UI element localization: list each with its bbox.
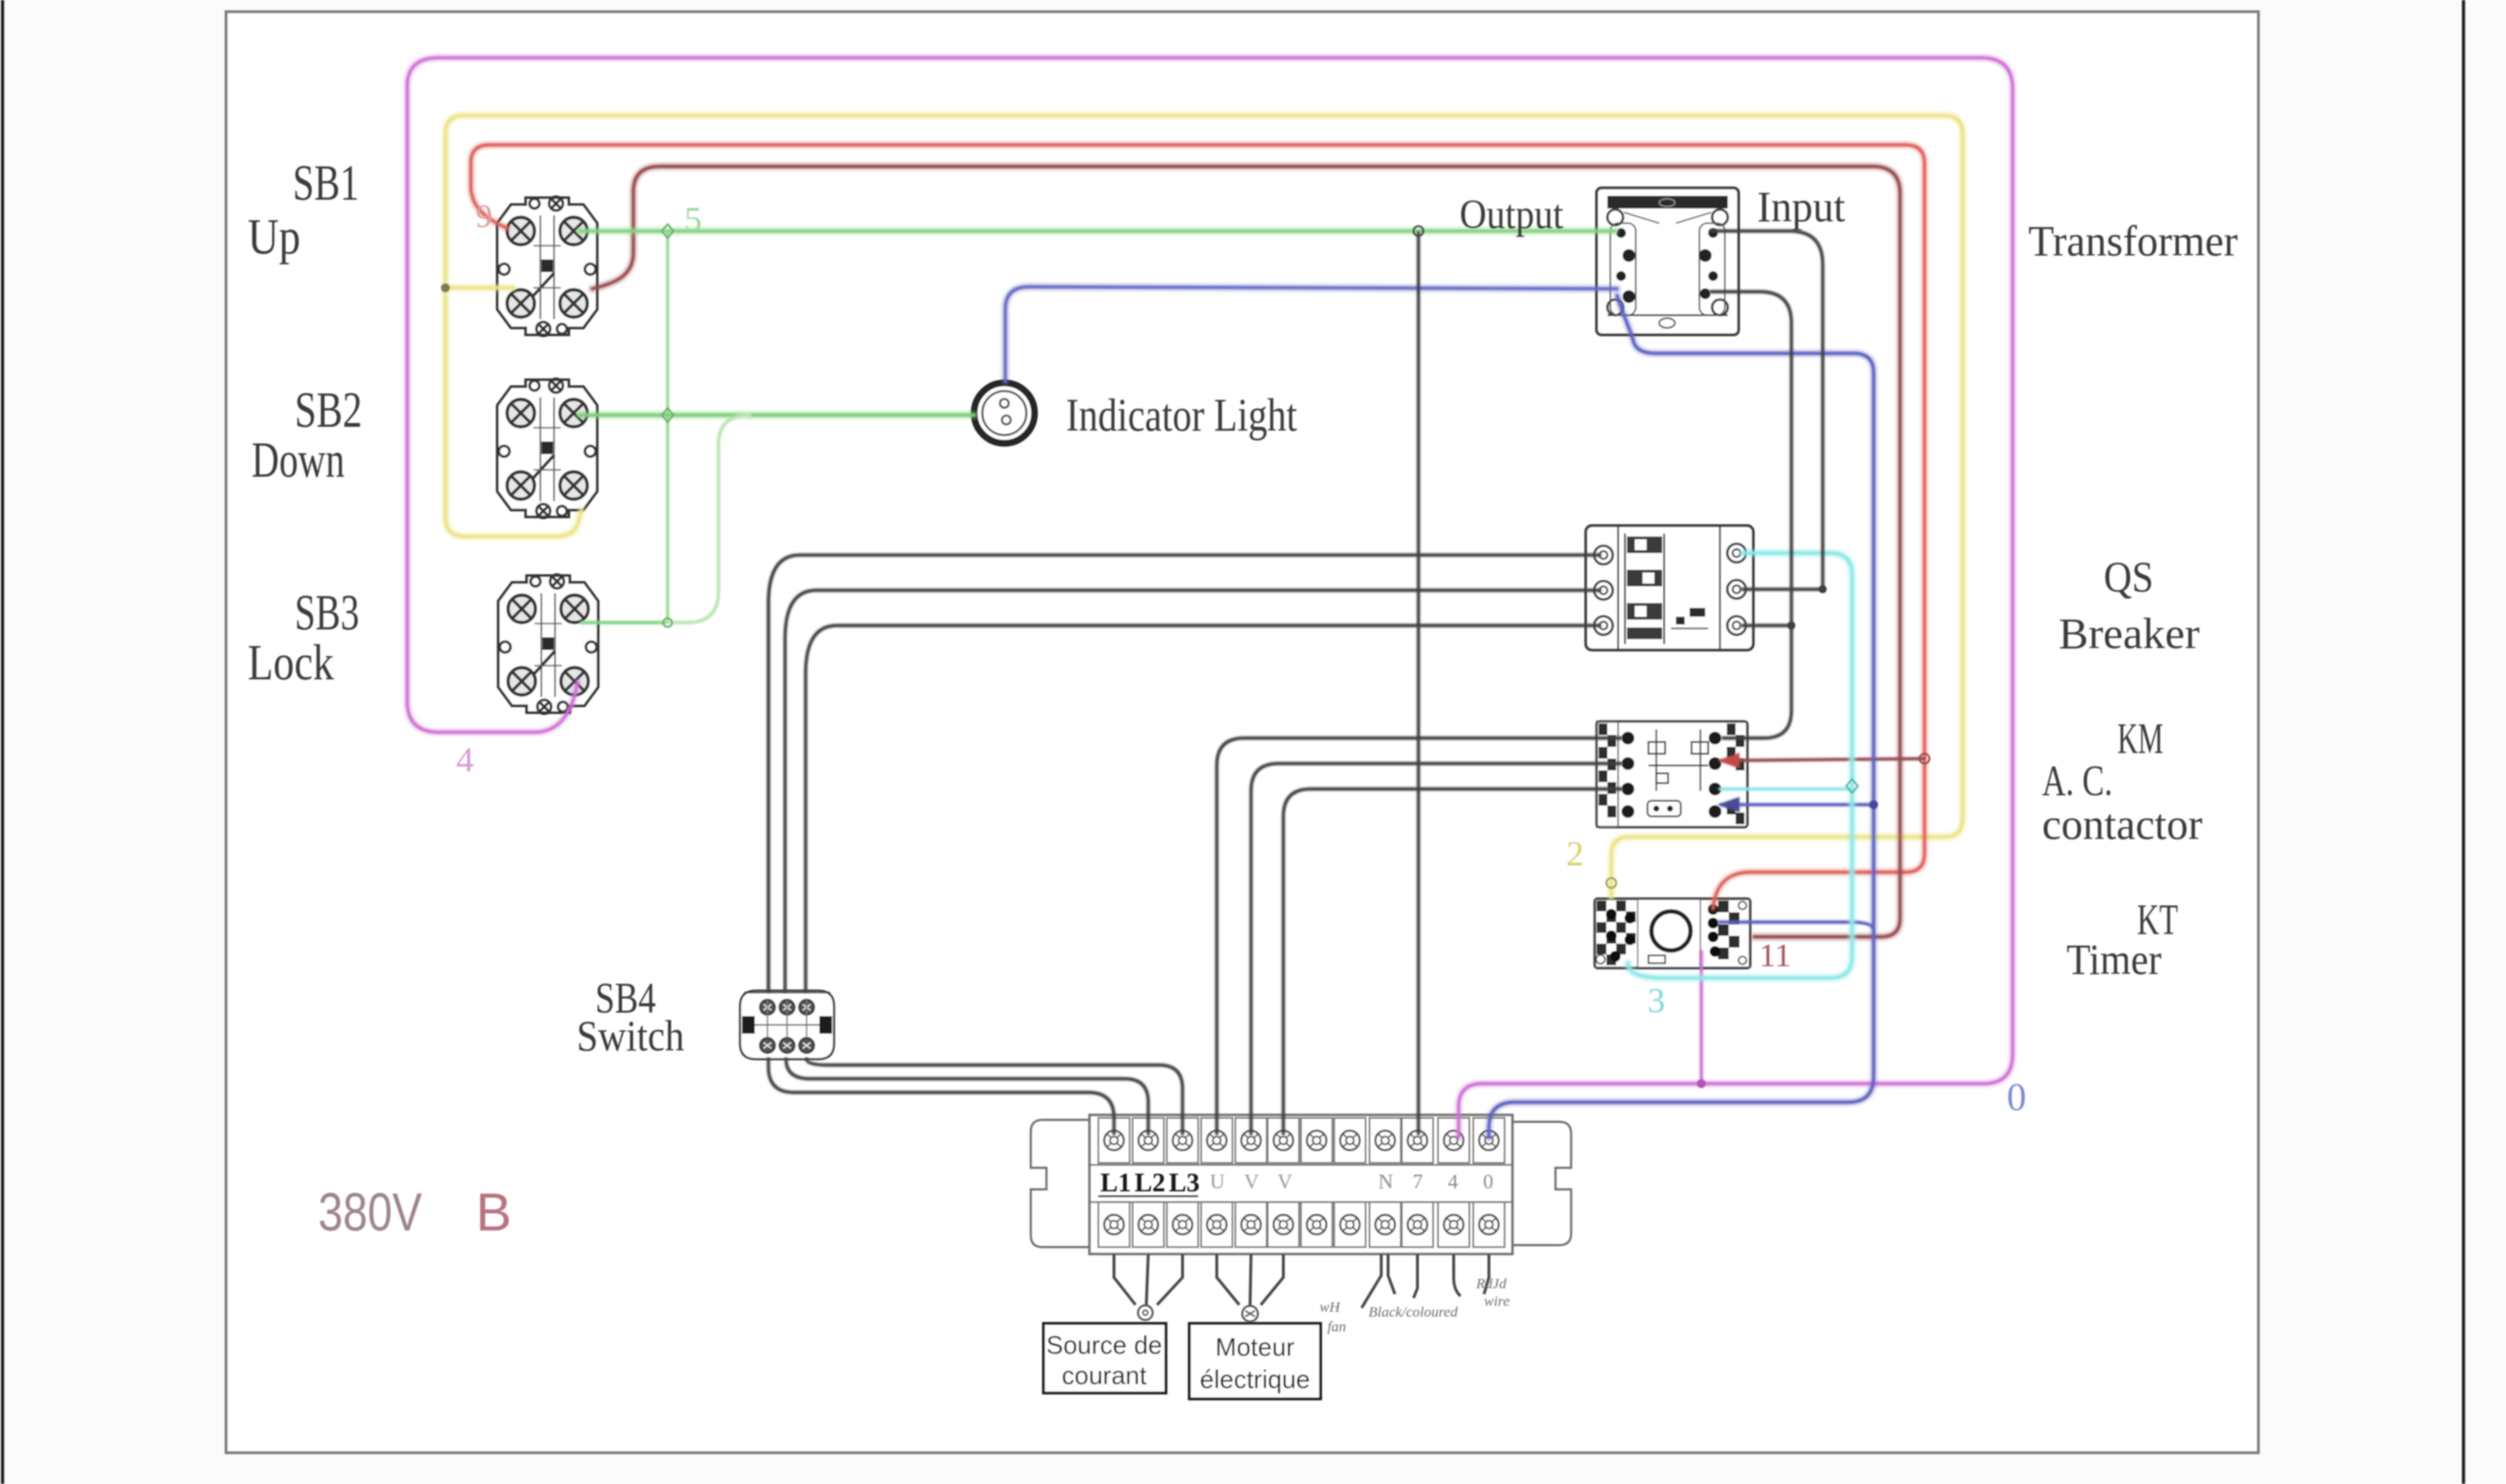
svg-text:V: V: [1244, 1170, 1259, 1193]
wire magenta KT drop to node: [1699, 951, 1702, 1084]
terminal bottom leads cols 9-12: [1362, 1254, 1489, 1308]
wire black QS right mid stub: [1742, 587, 1823, 590]
wire black QS L3 to SB4: [806, 626, 1600, 991]
terminal labels N 7 4 0: [1378, 1170, 1494, 1193]
transformer T: [1597, 188, 1739, 335]
wire maroon KM coil branch: [1721, 759, 1925, 761]
svg-text:B: B: [476, 1182, 512, 1242]
wire black QS L2 to SB4: [785, 590, 1600, 991]
node black junction QS right bottom: [1787, 622, 1795, 629]
svg-text:KM: KM: [2117, 715, 2163, 763]
wire net0 blue halo: [1489, 296, 1874, 1137]
wire black SB4 out1 to terminal L1: [768, 1059, 1114, 1134]
svg-text:Timer: Timer: [2066, 936, 2161, 984]
terminal labels L1 L2 L3: [1100, 1168, 1200, 1197]
svg-text:L1: L1: [1100, 1168, 1132, 1197]
TEXTLABELS: [248, 156, 2238, 1399]
node yellow junction at SB1: [441, 284, 450, 293]
wire blue KM coil A2 branch: [1721, 803, 1874, 806]
svg-text:Breaker: Breaker: [2059, 610, 2200, 658]
switch SB4: [740, 991, 834, 1059]
svg-text:RdJd: RdJd: [1475, 1276, 1507, 1292]
svg-text:courant: courant: [1062, 1361, 1147, 1390]
wire net2 yellow: SB1 to top rail to KT: [445, 116, 1963, 897]
svg-text:Black/coloured: Black/coloured: [1369, 1305, 1459, 1321]
terminal block XT: [1031, 1115, 1571, 1254]
terminal block cells and screws: [1098, 1118, 1505, 1247]
wire black SB4 out2 to terminal L2: [786, 1059, 1148, 1134]
svg-text:7: 7: [1413, 1170, 1423, 1193]
wire green SB2 to indicator light: [580, 411, 974, 420]
wire maroon halo: [592, 166, 1900, 937]
terminal labels U V W: [1210, 1170, 1292, 1193]
terminal bottom leads group2 motor: [1217, 1254, 1283, 1322]
svg-text:3: 3: [1647, 981, 1665, 1020]
svg-text:électrique: électrique: [1200, 1365, 1311, 1394]
svg-text:L3: L3: [1169, 1168, 1200, 1197]
node diamond on green at SB2: [662, 408, 673, 422]
wire black center vertical to terminal 7: [1416, 233, 1419, 1134]
svg-text:L2: L2: [1135, 1168, 1166, 1197]
node circle on green at SB3: [664, 619, 673, 627]
tiny handwritten note left: [1320, 1300, 1346, 1335]
svg-text:contactor: contactor: [2042, 801, 2203, 849]
svg-text:V: V: [1277, 1170, 1292, 1193]
diagram border frame: [226, 12, 2258, 1453]
terminal bottom leads group1 source: [1114, 1254, 1183, 1321]
svg-text:4: 4: [1448, 1170, 1459, 1193]
push button SB2: [497, 379, 597, 518]
push button SB3: [498, 575, 598, 714]
contactor KM: [1597, 721, 1747, 827]
svg-text:9: 9: [476, 199, 492, 235]
wire net3 cyan: QS to KT: [1628, 553, 1852, 978]
wire maroon: SB1 to top rail to KT pin: [592, 166, 1900, 937]
wire black QS L1 to SB4: [768, 555, 1600, 991]
svg-text:SB3: SB3: [295, 585, 359, 641]
WIRES_GROUP: [407, 58, 2013, 1137]
svg-text:4: 4: [456, 740, 474, 779]
wire blue KT branch: [1719, 922, 1874, 930]
wire yellow branch to SB2: [445, 288, 581, 536]
svg-text:U: U: [1210, 1170, 1225, 1193]
annotation motor box: [1189, 1323, 1321, 1399]
wire net9 red: SB1 to top rail to KM / KT: [471, 145, 1925, 908]
wire black QS right bottom stub: [1742, 624, 1791, 626]
wire cyan KM branch: [1720, 787, 1852, 790]
wire net5 green: SB1 to transformer output: [580, 229, 1615, 233]
svg-text:Input: Input: [1757, 183, 1845, 231]
wire net4 magenta: SB3 to top rail to terminal 4: [407, 58, 2013, 1137]
wire green SB3 stub: [581, 621, 668, 625]
wire blue light to transformer: [1005, 287, 1617, 382]
node magenta junction at terminal rail: [1697, 1080, 1706, 1089]
svg-text:Up: Up: [248, 209, 301, 265]
breaker QS: [1586, 526, 1753, 650]
arrowhead blue at KM A2: [1717, 797, 1740, 812]
wire black transformer input bottom to QS and KM: [1711, 292, 1791, 738]
outer screen right edge: [2462, 0, 2465, 1484]
node cyan diamond: [1846, 779, 1858, 793]
svg-text:SB2: SB2: [295, 383, 362, 439]
wire black KM T1 to terminal U: [1217, 738, 1621, 1134]
node black junction QS right mid: [1819, 585, 1827, 593]
svg-text:fan: fan: [1327, 1320, 1346, 1335]
wire black SB4 out3 to terminal L3: [807, 1059, 1183, 1134]
svg-text:2: 2: [1566, 834, 1584, 873]
node blue tee at KM A2: [1870, 801, 1879, 810]
push button SB1: [497, 197, 597, 336]
wire black KM T2 to terminal V: [1251, 764, 1621, 1134]
svg-text:0: 0: [2007, 1075, 2026, 1119]
svg-text:Indicator Light: Indicator Light: [1066, 390, 1298, 441]
wire black transformer input top to QS: [1711, 231, 1823, 587]
wire net3 cyan halo: [1628, 553, 1852, 978]
svg-text:N: N: [1378, 1170, 1393, 1193]
svg-text:Switch: Switch: [577, 1012, 684, 1060]
svg-text:Moteur: Moteur: [1216, 1332, 1295, 1362]
BLACK_WIRES: [768, 231, 1823, 1134]
svg-text:380V: 380V: [318, 1182, 422, 1242]
tiny handwritten note right: [1475, 1276, 1509, 1310]
wire net0 blue: transformer to KM KT terminal 0: [1489, 296, 1874, 1137]
svg-text:wire: wire: [1484, 1294, 1509, 1310]
wire net5 green halo: [580, 227, 1615, 236]
svg-text:Output: Output: [1460, 193, 1563, 238]
annotation source box: [1044, 1323, 1166, 1393]
svg-text:SB1: SB1: [293, 156, 359, 211]
wire net9 red halo: [471, 145, 1925, 908]
svg-text:5: 5: [684, 200, 702, 239]
node 5 diamond on green at SB1: [662, 224, 673, 238]
wire net2 yellow halo: [445, 116, 1963, 897]
indicator light HL: [974, 383, 1035, 443]
svg-text:QS: QS: [2104, 553, 2154, 601]
wire light green riser: [668, 415, 750, 623]
timer KT: [1595, 899, 1750, 968]
svg-text:Source de: Source de: [1046, 1330, 1163, 1360]
svg-text:Transformer: Transformer: [2028, 217, 2238, 265]
svg-text:wH: wH: [1320, 1300, 1341, 1316]
svg-text:Lock: Lock: [248, 635, 334, 691]
wire green vertical bus: [667, 231, 670, 623]
node black vertical origin on green: [1414, 226, 1423, 236]
svg-text:Down: Down: [252, 433, 345, 488]
wire black KM T3 to terminal W: [1283, 789, 1621, 1134]
node red tee at KM branch: [1920, 754, 1929, 764]
outer screen left edge: [1, 0, 4, 1484]
svg-text:0: 0: [1483, 1170, 1494, 1193]
svg-text:11: 11: [1759, 938, 1791, 974]
svg-text:A. C.: A. C.: [2042, 757, 2112, 805]
arrowhead red at KM A1: [1717, 753, 1740, 768]
wire net4 magenta halo: [407, 58, 2013, 1137]
node yellow circle at KT: [1606, 878, 1616, 888]
